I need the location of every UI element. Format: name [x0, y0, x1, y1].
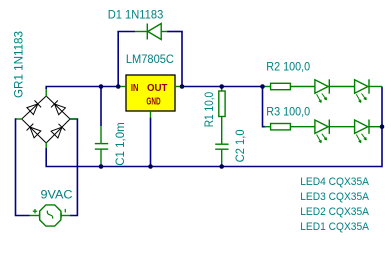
svg-text:R2 100,0: R2 100,0	[266, 61, 310, 74]
svg-text:C2 1,0: C2 1,0	[234, 129, 247, 162]
svg-text:C1 1,0m: C1 1,0m	[114, 122, 127, 166]
svg-text:GR1 1N1183: GR1 1N1183	[12, 31, 25, 98]
svg-text:LED1 CQX35A: LED1 CQX35A	[300, 221, 369, 233]
svg-text:LED2 CQX35A: LED2 CQX35A	[300, 206, 369, 218]
svg-text:D1 1N1183: D1 1N1183	[108, 8, 164, 21]
svg-text:IN: IN	[131, 83, 139, 94]
svg-text:9VAC: 9VAC	[41, 188, 73, 201]
svg-text:LED4 CQX35A: LED4 CQX35A	[300, 176, 369, 188]
svg-text:GND: GND	[146, 96, 160, 107]
svg-text:LM7805C: LM7805C	[126, 53, 174, 66]
svg-text:R1 10,0: R1 10,0	[203, 91, 216, 127]
svg-text:LED3 CQX35A: LED3 CQX35A	[300, 191, 369, 203]
svg-text:R3 100,0: R3 100,0	[266, 105, 310, 118]
svg-text:OUT: OUT	[147, 83, 168, 94]
